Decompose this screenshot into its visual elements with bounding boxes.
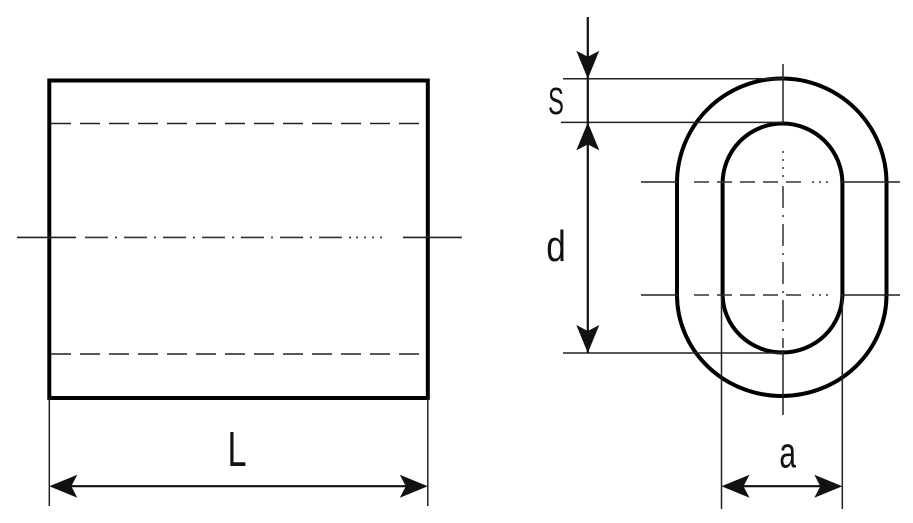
S extension line bottom / d top (inner tangent): [561, 121, 783, 123]
lower arc centerline solid left: [641, 294, 679, 296]
arrowhead L left: [49, 475, 77, 498]
svg-text:L: L: [227, 422, 246, 476]
front view rectangle (sleeve body): [49, 81, 428, 399]
vertical centerline solid top: [782, 64, 784, 124]
centerline dots: [356, 236, 384, 238]
centerline dash-dot run: [85, 236, 352, 238]
lower arc centerline dashes: [694, 294, 801, 296]
S and d dimension line (vertical): [587, 17, 589, 353]
inner stadium (bore): [723, 123, 843, 352]
arrowhead d up: [576, 122, 599, 150]
upper arc centerline solid right: [841, 181, 900, 183]
d extension line bottom (inner bottom tangent): [563, 352, 783, 354]
upper arc centerline dots: [812, 181, 830, 183]
lower arc centerline solid right: [841, 294, 900, 296]
dimension line a: [725, 485, 839, 487]
hidden line bottom (bore edge): [51, 353, 427, 355]
arrowhead S down: [576, 51, 599, 79]
centerline left solid segment: [17, 236, 76, 238]
S extension line top (outer tangent): [563, 78, 783, 80]
upper arc centerline dashes: [694, 181, 801, 183]
arrowhead a right: [814, 475, 842, 498]
svg-text:a: a: [779, 428, 796, 477]
centerline right solid segment: [403, 236, 462, 238]
hidden line top (bore edge): [51, 123, 427, 125]
svg-text:d: d: [546, 222, 566, 271]
vertical centerline solid bottom: [782, 350, 784, 415]
vertical centerline dash-dot: [782, 186, 784, 348]
arrowhead L right: [400, 475, 428, 498]
svg-text:S: S: [548, 79, 564, 122]
dimension line L: [53, 485, 424, 487]
extension line L right: [427, 398, 429, 506]
lower arc centerline dots: [812, 294, 830, 296]
arrowhead d down: [576, 325, 599, 353]
arrowhead a left: [722, 475, 750, 498]
a extension line left: [721, 294, 723, 509]
upper arc centerline solid left: [641, 181, 679, 183]
vertical centerline dots: [782, 151, 784, 181]
outer stadium (sleeve outline): [677, 79, 887, 397]
extension line L left: [48, 398, 50, 506]
a extension line right: [841, 294, 843, 509]
